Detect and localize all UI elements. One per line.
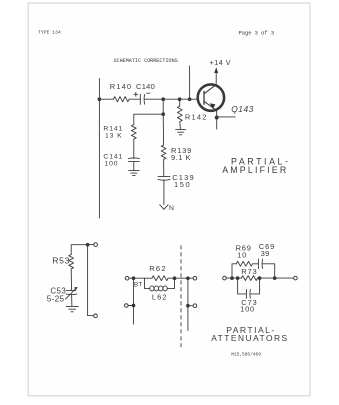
wire C69 to right	[263, 264, 275, 278]
wire bottom branch left down	[238, 278, 247, 294]
resistor R62	[152, 276, 168, 281]
wire R141 to C141	[133, 139, 135, 159]
wire R53 to C53	[70, 269, 72, 291]
wire R139 to C139	[163, 159, 165, 176]
wire R140 to C140	[129, 98, 140, 100]
node right of R62	[173, 277, 176, 280]
svg-text:R62: R62	[149, 264, 167, 273]
wire R53 top	[71, 245, 86, 255]
wire to bottom terminal	[88, 315, 94, 317]
wire emitter down to node	[216, 110, 218, 117]
wire left vertical	[133, 278, 135, 324]
svg-text:SCHEMATIC CORRECTIONS: SCHEMATIC CORRECTIONS	[114, 58, 178, 64]
node right output	[187, 277, 190, 280]
resistor R73	[241, 276, 257, 281]
transistor Q143	[198, 84, 224, 110]
node bottom left	[132, 304, 135, 307]
svg-text:150: 150	[174, 180, 191, 189]
wire R73 to node	[257, 277, 259, 279]
terminal circle attenuator output	[294, 276, 298, 280]
node at base wire left	[98, 98, 101, 101]
svg-text:ATTENUATORS: ATTENUATORS	[211, 333, 288, 343]
wire input to node	[129, 277, 134, 279]
capacitor C53 (variable)	[65, 287, 77, 299]
wire node to output	[260, 277, 294, 279]
svg-text:5-25: 5-25	[47, 294, 65, 303]
wire R142 to ground	[179, 122, 182, 130]
wire R69 to C69	[252, 263, 258, 265]
svg-text:R141: R141	[103, 126, 123, 133]
svg-text:9.1 K: 9.1 K	[171, 153, 191, 162]
wire to right terminal	[189, 277, 193, 279]
svg-text:L62: L62	[152, 292, 168, 301]
svg-text:13 K: 13 K	[105, 133, 123, 140]
node bottom right	[187, 304, 190, 307]
wire L62 branch right	[167, 278, 174, 288]
wire input	[226, 277, 241, 279]
node top branch right	[273, 277, 276, 280]
resistor R142	[177, 106, 182, 122]
svg-text:TYPE 134: TYPE 134	[38, 29, 61, 35]
svg-text:M15,585/469: M15,585/469	[231, 352, 261, 358]
ground below C53	[66, 306, 78, 311]
wire main horizontal to R140	[99, 98, 113, 100]
wire C73 to right up	[250, 278, 259, 294]
terminal circle bottom right	[193, 304, 197, 308]
svg-text:39: 39	[261, 249, 270, 258]
svg-text:Page 3 of 3: Page 3 of 3	[239, 31, 275, 37]
svg-text:+14 V: +14 V	[210, 58, 231, 67]
ground below C141	[129, 171, 140, 176]
wire down to lower junction	[162, 99, 164, 114]
wire bottom left to terminal	[128, 305, 132, 307]
wire emitter stub right	[217, 116, 236, 118]
node top branch left	[231, 277, 234, 280]
resistor R53	[69, 255, 74, 269]
wire right vertical	[187, 278, 189, 330]
resistor R141	[131, 125, 136, 139]
svg-text:AMPLIFIER: AMPLIFIER	[222, 165, 288, 175]
capacitor C73	[246, 289, 250, 298]
svg-text:R140: R140	[110, 82, 132, 91]
node bottom branch left	[236, 277, 239, 280]
wire junction to R139	[162, 114, 164, 145]
terminal circle attenuator input	[223, 276, 227, 280]
svg-text:100: 100	[240, 305, 255, 314]
terminal circle right output	[193, 276, 197, 280]
wire C141 to ground	[133, 162, 135, 171]
capacitor C139	[158, 177, 170, 181]
capacitor C140	[134, 92, 150, 104]
wire R142 branch down	[179, 99, 181, 106]
svg-text:R142: R142	[185, 113, 208, 122]
terminal circle bottom left	[125, 304, 129, 308]
svg-text:C141: C141	[103, 154, 123, 161]
svg-text:R73: R73	[241, 267, 257, 276]
svg-text:R53: R53	[52, 255, 70, 265]
resistor R69	[236, 261, 252, 266]
wire R62 to node right	[168, 277, 174, 279]
node left	[132, 277, 135, 280]
wire node to R62	[134, 277, 153, 279]
inductor L62	[150, 286, 168, 291]
wire bottom right to terminal	[189, 305, 193, 307]
wire right branch down	[87, 245, 89, 316]
node bottom branch right	[258, 277, 261, 280]
node R53 output	[86, 243, 89, 246]
wire C139 to N arrow	[163, 180, 165, 205]
capacitor C141	[128, 158, 139, 162]
wire across dashed line	[175, 277, 188, 279]
terminal circle top	[94, 243, 98, 247]
svg-text:C140: C140	[136, 82, 155, 91]
terminal circle bottom	[94, 314, 98, 318]
wire horizontal to R141 branch	[134, 114, 163, 124]
terminal circle left input	[125, 276, 129, 280]
svg-text:Q143: Q143	[231, 104, 254, 114]
svg-text:BT: BT	[134, 281, 143, 288]
capacitor C69	[258, 259, 262, 269]
dashed separator line	[180, 245, 182, 347]
wire top branch left up	[232, 264, 236, 278]
resistor R139	[161, 145, 166, 159]
ground below R142	[176, 129, 186, 134]
svg-text:N: N	[169, 205, 174, 212]
svg-text:100: 100	[104, 161, 118, 168]
wire node to terminal	[89, 244, 94, 246]
node at R139 branch	[162, 98, 165, 101]
svg-text:10: 10	[237, 251, 247, 260]
wire L62 branch left	[145, 278, 150, 288]
node lower junction	[162, 113, 165, 116]
node at R142 branch	[178, 98, 181, 101]
wire emitter stub down	[216, 118, 218, 130]
wire left vertical stub	[98, 78, 100, 218]
wire C140 to transistor base	[145, 98, 198, 100]
node emitter junction	[215, 116, 218, 119]
wire C53 to ground	[71, 295, 73, 307]
resistor R140	[114, 97, 130, 102]
wire +14V arrow	[215, 70, 217, 83]
node at upper stub	[188, 98, 191, 101]
wire stub up from node	[189, 66, 191, 99]
arrow to node N	[160, 205, 169, 210]
